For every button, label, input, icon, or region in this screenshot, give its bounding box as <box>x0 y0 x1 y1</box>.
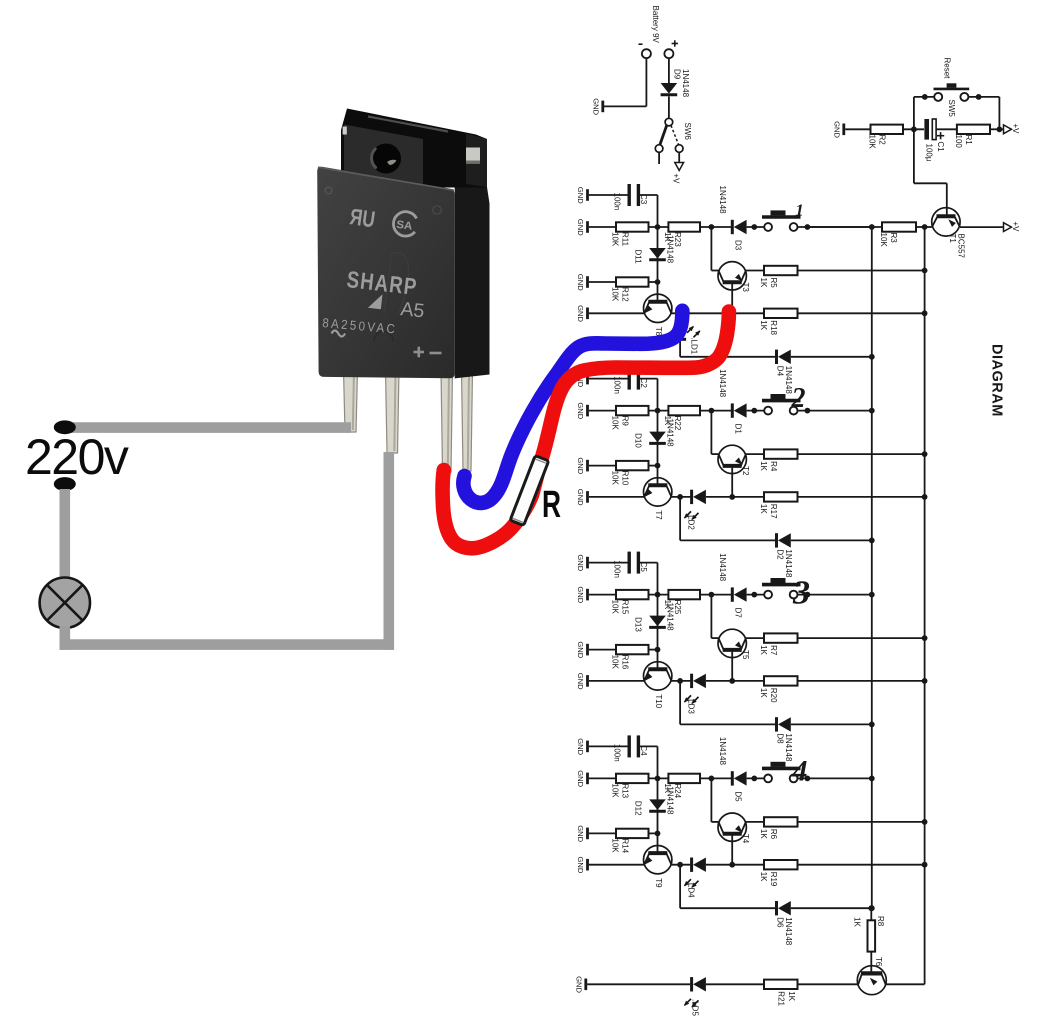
wire GND to emitter <box>589 312 644 314</box>
resistor R8 1K (vertical) <box>853 905 885 951</box>
wire collector to LED node <box>671 862 690 868</box>
svg-text:R7: R7 <box>769 645 778 656</box>
svg-text:100n: 100n <box>613 560 622 578</box>
svg-text:R11: R11 <box>621 232 630 247</box>
wire GND to R2 <box>845 128 870 130</box>
svg-text:R19: R19 <box>769 872 778 887</box>
svg-text:+V: +V <box>1011 124 1020 135</box>
svg-text:.LD2: .LD2 <box>686 513 695 530</box>
wire R17 to bus2 <box>798 494 928 500</box>
diode D9 1N4148 <box>661 69 690 98</box>
wire LED to base node <box>706 678 735 684</box>
wire R1 to +V <box>990 128 1004 130</box>
wire LED node down to D2 row <box>680 497 776 541</box>
resistor R (photo overlay) <box>510 456 549 526</box>
svg-text:1N4148: 1N4148 <box>718 553 727 582</box>
wire D4 to bus1 <box>791 354 875 360</box>
resistor R18 1K <box>732 309 797 336</box>
wire node to T5 collector <box>711 595 719 639</box>
transistor T4 <box>718 813 750 844</box>
push button 2 <box>762 383 806 414</box>
svg-text:T6: T6 <box>874 957 883 967</box>
resistor R14 10K <box>611 829 649 854</box>
push button 4 <box>762 754 808 787</box>
resistor R9 10K <box>611 406 649 431</box>
wire to node <box>649 408 669 414</box>
wire cap to junction column <box>638 563 657 595</box>
svg-text:1N4148: 1N4148 <box>784 549 793 578</box>
svg-text:SW6: SW6 <box>683 123 692 141</box>
wire diode to button <box>747 776 765 782</box>
wire column to transistor base <box>657 650 659 670</box>
wire GND to R11 <box>589 226 616 228</box>
LED LD2 <box>684 490 706 531</box>
svg-text:R14: R14 <box>621 838 630 853</box>
svg-text:10K: 10K <box>879 233 888 248</box>
LED LD4 <box>684 858 706 899</box>
diode D8 1N4148 <box>776 717 794 762</box>
svg-text:10K: 10K <box>611 655 620 670</box>
wire button to bus <box>797 776 875 782</box>
capacitor C2 100n <box>613 368 648 394</box>
ground (R9 row) <box>576 402 588 419</box>
ground (R11 row) <box>576 219 588 236</box>
wire T1 emitter to +V <box>960 226 1004 228</box>
diode D13 1N4148 (vertical) <box>633 595 674 650</box>
SSR photo: body side face <box>455 187 490 378</box>
SSR photo: top tab <box>341 109 487 188</box>
terminal 220v top <box>54 420 76 434</box>
wire R4 to bus2 <box>798 451 928 457</box>
svg-text:10K: 10K <box>611 287 620 302</box>
wire to column node <box>649 463 661 469</box>
svg-text:R4: R4 <box>769 461 778 472</box>
LED LD5 <box>684 977 706 1016</box>
svg-text:1N4148: 1N4148 <box>718 369 727 398</box>
svg-text:1K: 1K <box>759 461 768 471</box>
wire collector to LED node <box>671 310 690 316</box>
transistor T1 BC557 <box>932 208 966 259</box>
svg-text:1K: 1K <box>759 278 768 288</box>
wire R7 to bus2 <box>798 635 928 641</box>
wire cap to junction column <box>638 379 657 411</box>
wire T8 collector to base node <box>680 310 735 316</box>
svg-text:SA: SA <box>396 219 413 233</box>
svg-text:D2: D2 <box>776 549 785 560</box>
svg-text:10K: 10K <box>868 135 877 150</box>
svg-text:R16: R16 <box>621 655 630 670</box>
resistor R12 10K <box>611 277 649 302</box>
wire LED to base node <box>706 494 735 500</box>
resistor R6 1K <box>746 817 798 839</box>
svg-text:10K: 10K <box>611 416 620 431</box>
svg-text:100n: 100n <box>613 376 622 394</box>
SSR photo: body front face <box>317 167 455 379</box>
svg-text:R15: R15 <box>621 600 630 615</box>
ground (T8 emitter) <box>576 305 588 322</box>
wire base down <box>731 284 733 313</box>
label 220v <box>25 429 129 485</box>
capacitor C5 100n <box>613 552 648 578</box>
svg-text:10K: 10K <box>611 471 620 486</box>
svg-text:Reset: Reset <box>943 58 952 80</box>
wire diode to button <box>747 408 765 414</box>
svg-text:GND: GND <box>576 586 585 603</box>
wire to diode node <box>700 592 732 598</box>
svg-text:1K: 1K <box>787 991 796 1001</box>
wire diode to button <box>747 592 765 598</box>
svg-text:T10: T10 <box>654 694 663 708</box>
wire up to SSR pin2 <box>383 452 394 650</box>
svg-text:100n: 100n <box>613 744 622 762</box>
wire battery minus to GND <box>604 58 646 106</box>
wire R21 to T6 collector <box>798 983 859 985</box>
wire button to bus <box>797 408 875 414</box>
transistor T9 <box>644 846 672 889</box>
wire cap to junction column <box>638 746 657 778</box>
wire GND to R10 <box>589 465 616 467</box>
svg-text:T1: T1 <box>948 234 957 244</box>
wire button to bus <box>797 592 875 598</box>
resistor R11 10K <box>611 222 649 247</box>
ground (C2 row) <box>576 370 588 387</box>
svg-text:D1: D1 <box>734 424 743 435</box>
wire to diode node <box>700 408 732 414</box>
resistor R25 1K <box>663 590 700 615</box>
diode D2 1N4148 <box>776 533 794 578</box>
wire GND to cap <box>589 745 629 747</box>
ground (reset row) <box>832 121 844 138</box>
wire to column node <box>649 279 661 285</box>
wire base down <box>731 652 733 681</box>
LED LD1 <box>674 326 700 355</box>
diode D4 1N4148 <box>776 350 794 395</box>
wire R20 to bus2 <box>798 678 928 684</box>
resistor R13 10K <box>611 774 649 799</box>
wire GND to cap <box>589 194 629 196</box>
svg-text:1K: 1K <box>759 829 768 839</box>
svg-text:A5: A5 <box>399 298 425 322</box>
wire collector to LED node <box>671 494 690 500</box>
wire diode to button <box>747 224 765 230</box>
svg-text:GND: GND <box>576 770 585 787</box>
svg-text:10K: 10K <box>611 838 620 853</box>
SSR photo: markings <box>322 203 442 357</box>
svg-text:D5: D5 <box>734 791 743 802</box>
wire node to T2 collector <box>711 411 719 455</box>
resistor R7 1K <box>746 633 798 655</box>
svg-text:R5: R5 <box>769 278 778 289</box>
svg-text:T4: T4 <box>741 834 750 844</box>
wire GND to R9 <box>589 410 616 412</box>
wire base down <box>731 835 733 864</box>
wire mains bottom <box>60 639 395 650</box>
wire R5 to bus2 <box>798 268 928 274</box>
svg-text:Battery 9V: Battery 9V <box>651 6 660 44</box>
capacitor C4 100n <box>613 735 648 761</box>
svg-text:+V: +V <box>1011 222 1020 233</box>
ground (R13 row) <box>576 770 588 787</box>
resistor R1 100 <box>954 125 990 149</box>
ground (C4 row) <box>576 738 588 755</box>
push button SW5 Reset <box>934 58 970 118</box>
svg-text:1K: 1K <box>759 688 768 698</box>
svg-text:GND: GND <box>576 305 585 322</box>
svg-text:100n: 100n <box>613 193 622 211</box>
svg-text:GND: GND <box>576 673 585 690</box>
wire column to transistor base <box>657 833 659 853</box>
resistor R2 10K <box>868 125 904 150</box>
+V arrow (reset row) <box>1004 124 1021 135</box>
svg-text:R10: R10 <box>621 471 630 486</box>
svg-text:+V: +V <box>672 174 681 185</box>
bus line (button common) <box>871 227 873 908</box>
wire LED to base node <box>706 862 735 868</box>
ground (T7 emitter) <box>576 489 588 506</box>
ground (R16 row) <box>576 641 588 658</box>
svg-text:R: R <box>542 484 561 526</box>
svg-text:1N4148: 1N4148 <box>718 186 727 215</box>
wire battery plus to D9 <box>668 58 670 83</box>
svg-text:DIAGRAM: DIAGRAM <box>989 344 1005 417</box>
capacitor C3 100n <box>613 184 648 210</box>
svg-text:10K: 10K <box>611 600 620 615</box>
wire SW5 left to R2/C1 node <box>914 94 935 129</box>
transistor T10 <box>644 662 672 709</box>
wire LD5 to R21 <box>706 983 764 985</box>
ground (R10 row) <box>576 457 588 474</box>
wire D2 to bus1 <box>791 538 875 544</box>
wire GND to R14 <box>589 832 616 834</box>
wire to diode node <box>700 776 732 782</box>
wire D9 to SW6 <box>668 96 670 118</box>
svg-text:D6: D6 <box>776 917 785 928</box>
svg-text:GND: GND <box>576 554 585 571</box>
wire to diode node <box>700 224 732 230</box>
resistor R10 10K <box>611 461 649 486</box>
svg-text:T3: T3 <box>741 283 750 293</box>
svg-text:R9: R9 <box>621 416 630 427</box>
resistor R4 1K <box>746 449 798 471</box>
svg-text:T5: T5 <box>741 650 750 660</box>
wire node to T1 base <box>914 129 947 216</box>
diode D10 1N4148 (vertical) <box>633 411 674 466</box>
diode D6 1N4148 <box>776 901 794 946</box>
wire column to transistor base <box>657 466 659 486</box>
svg-text:R1: R1 <box>964 135 973 146</box>
resistor R19 1K <box>732 860 797 887</box>
svg-text:R20: R20 <box>769 688 778 703</box>
svg-text:.LD1: .LD1 <box>689 337 698 354</box>
svg-text:100µ: 100µ <box>925 144 934 162</box>
+V arrow (SW6) <box>672 163 684 185</box>
wire to node <box>649 776 669 782</box>
wire R3 to T1 collector <box>916 224 932 230</box>
wire GND to emitter <box>589 496 644 498</box>
svg-text:GND: GND <box>576 187 585 204</box>
svg-text:GND: GND <box>576 641 585 658</box>
svg-text:1N4148: 1N4148 <box>665 603 674 632</box>
transistor T2 <box>718 445 750 476</box>
transistor T8 <box>644 294 672 337</box>
wire SW6 left stub <box>658 152 660 164</box>
capacitor C1 100u <box>924 119 945 162</box>
resistor R24 1K <box>663 774 700 799</box>
ground (bottom row) <box>574 976 586 993</box>
svg-text:1N4148: 1N4148 <box>718 737 727 766</box>
svg-text:D11: D11 <box>633 250 642 265</box>
wire node to T4 collector <box>711 778 719 822</box>
wire GND to emitter <box>589 680 644 682</box>
ground (R12 row) <box>576 274 588 291</box>
ground (C3 row) <box>576 554 588 571</box>
svg-text:1K: 1K <box>759 645 768 655</box>
svg-text:GND: GND <box>576 489 585 506</box>
wire GND to R16 <box>589 649 616 651</box>
svg-text:R18: R18 <box>769 320 778 335</box>
ground (R15 row) <box>576 586 588 603</box>
wire GND to cap <box>589 562 629 564</box>
resistor R20 1K <box>732 676 797 703</box>
push button 3 <box>762 575 810 612</box>
svg-text:10K: 10K <box>611 783 620 798</box>
DIAGRAM title <box>989 344 1005 417</box>
svg-text:D13: D13 <box>633 617 642 632</box>
wire T6 emitter to bus2 <box>886 983 925 985</box>
resistor R21 1K <box>764 980 798 1007</box>
svg-text:D12: D12 <box>633 801 642 816</box>
wire GND to LD5 <box>587 983 690 985</box>
svg-text:BC557: BC557 <box>957 234 966 259</box>
ground (T10 emitter) <box>576 673 588 690</box>
svg-text:D9: D9 <box>673 69 682 80</box>
svg-text:R2: R2 <box>878 135 887 146</box>
wire 220v to lamp <box>60 489 71 579</box>
svg-text:D7: D7 <box>734 608 743 619</box>
svg-text:1K: 1K <box>853 917 862 927</box>
wire collector to LED node <box>671 678 690 684</box>
wire mains top (220v to SSR pin1) <box>62 422 351 433</box>
wire column to transistor base <box>657 282 659 302</box>
svg-text:1K: 1K <box>759 320 768 330</box>
svg-text:R3: R3 <box>889 233 898 244</box>
svg-text:4: 4 <box>792 754 808 787</box>
svg-text:GND: GND <box>576 219 585 236</box>
wire node to T3 collector <box>711 227 719 271</box>
wire LED node down to D8 row <box>680 681 776 725</box>
svg-text:D10: D10 <box>633 433 642 448</box>
resistor R16 10K <box>611 645 649 670</box>
transistor T3 <box>718 262 750 293</box>
svg-text:R13: R13 <box>621 783 630 798</box>
resistor R5 1K <box>746 266 798 288</box>
terminal 220v bottom <box>54 477 76 491</box>
wire GND to cap <box>589 378 629 380</box>
svg-text:R21: R21 <box>777 991 786 1006</box>
svg-text:2: 2 <box>791 383 806 414</box>
svg-text:1K: 1K <box>759 504 768 514</box>
svg-text:10K: 10K <box>611 232 620 247</box>
svg-text:GND: GND <box>576 738 585 755</box>
svg-text:1: 1 <box>795 201 804 220</box>
ground (T9 emitter) <box>576 857 588 874</box>
svg-text:R8: R8 <box>876 916 885 927</box>
wire to column node <box>649 647 661 653</box>
svg-text:100: 100 <box>954 135 963 149</box>
svg-text:GND: GND <box>576 857 585 874</box>
wire lamp down <box>60 626 71 650</box>
bus line (T1 collector) <box>924 227 926 984</box>
svg-text:.LD4: .LD4 <box>686 881 695 898</box>
lamp L1 <box>40 578 90 628</box>
wire button to bus <box>797 224 875 230</box>
svg-text:.LD5: .LD5 <box>691 999 700 1016</box>
svg-text:GND: GND <box>576 825 585 842</box>
wire red jumper (SSR pin3 via R to T3) <box>443 312 729 549</box>
diode D11 1N4148 (vertical) <box>633 227 674 282</box>
LED LD3 <box>684 674 706 715</box>
ground battery <box>591 98 603 115</box>
svg-text:T2: T2 <box>741 466 750 476</box>
wire GND to R15 <box>589 594 616 596</box>
wire D8 to bus1 <box>791 722 875 728</box>
wire to column node <box>649 831 661 837</box>
svg-text:C1: C1 <box>936 142 945 153</box>
wire GND to R13 <box>589 777 616 779</box>
wire SW5 right to +V node <box>968 94 1003 132</box>
wire R6 to bus2 <box>798 819 928 825</box>
transistor T5 <box>718 629 750 660</box>
battery B1 9V <box>639 6 679 59</box>
label R <box>542 484 561 526</box>
svg-text:R6: R6 <box>769 829 778 840</box>
svg-text:1N4148: 1N4148 <box>665 235 674 264</box>
svg-text:R17: R17 <box>769 504 778 519</box>
wire SW6 to +V <box>678 152 680 162</box>
diode D7 1N4148 <box>718 553 747 618</box>
resistor R3 10K <box>807 222 916 247</box>
svg-text:1N4148: 1N4148 <box>784 917 793 946</box>
svg-text:T9: T9 <box>654 878 663 888</box>
resistor R23 1K <box>663 222 700 247</box>
wire cap to junction column <box>638 195 657 227</box>
svg-text:GND: GND <box>574 976 583 993</box>
wire GND to emitter <box>589 864 644 866</box>
wire R19 to bus2 <box>798 862 928 868</box>
svg-text:GND: GND <box>576 402 585 419</box>
svg-text:GND: GND <box>591 98 600 115</box>
wire D6 to bus1 <box>791 905 875 911</box>
svg-text:GND: GND <box>576 274 585 291</box>
SSR photo: pins <box>344 370 473 472</box>
resistor R15 10K <box>611 590 649 615</box>
wire LED node down to D6 row <box>680 865 776 909</box>
wire LED node down to D4 row <box>680 313 776 357</box>
wire base down <box>731 468 733 497</box>
svg-text:1N4148: 1N4148 <box>665 419 674 448</box>
wire blue jumper (SSR pin4 to LD1 node) <box>463 311 682 503</box>
diode D3 1N4148 <box>718 186 747 251</box>
resistor R17 1K <box>732 492 797 519</box>
svg-text:SW5: SW5 <box>947 100 956 118</box>
transistor T7 <box>644 478 672 521</box>
wire GND to R12 <box>589 281 616 283</box>
ground (R14 row) <box>576 825 588 842</box>
svg-text:T7: T7 <box>654 510 663 520</box>
wire C1 to R1 <box>936 128 957 130</box>
svg-text:D4: D4 <box>776 366 785 377</box>
ground (C1 row) <box>576 187 588 204</box>
